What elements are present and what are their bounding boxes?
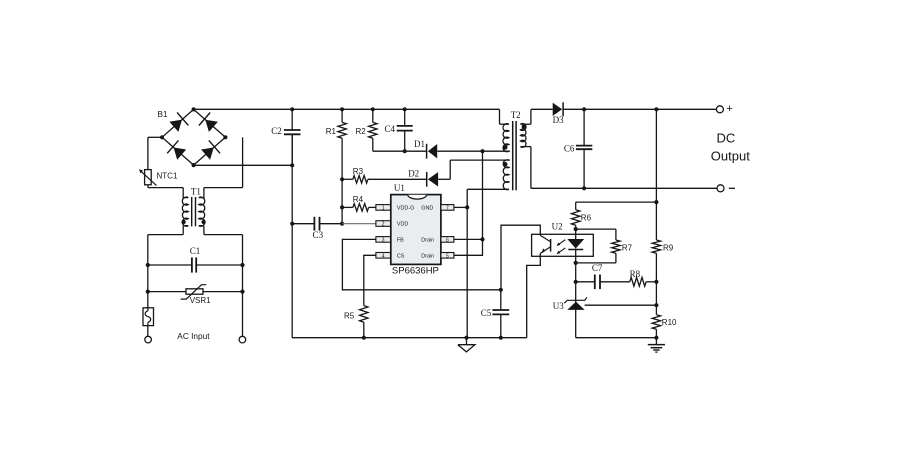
svg-text:Drain: Drain (421, 254, 434, 260)
svg-text:C1: C1 (190, 246, 201, 256)
svg-text:D2: D2 (408, 169, 419, 179)
svg-text:DC: DC (717, 130, 736, 145)
svg-text:AC Input: AC Input (177, 331, 210, 341)
svg-text:U3: U3 (553, 301, 564, 311)
svg-text:T1: T1 (191, 187, 201, 197)
svg-text:D3: D3 (553, 115, 564, 125)
svg-text:U1: U1 (394, 183, 405, 193)
svg-text:+: + (726, 103, 732, 115)
svg-text:5: 5 (446, 253, 449, 259)
svg-text:R2: R2 (356, 127, 367, 136)
svg-text:VSR1: VSR1 (190, 296, 211, 305)
svg-text:R5: R5 (344, 312, 355, 321)
svg-text:C4: C4 (385, 124, 396, 134)
svg-text:C3: C3 (313, 230, 324, 240)
svg-text:T2: T2 (511, 110, 521, 120)
svg-text:R7: R7 (622, 243, 633, 252)
svg-text:1: 1 (382, 206, 385, 212)
svg-text:SP6636HP: SP6636HP (392, 266, 439, 277)
svg-text:C2: C2 (271, 126, 282, 136)
svg-text:R3: R3 (353, 167, 364, 176)
svg-text:R1: R1 (326, 127, 337, 136)
svg-text:C6: C6 (564, 144, 575, 154)
svg-text:B1: B1 (158, 110, 168, 119)
svg-text:D1: D1 (414, 139, 425, 149)
svg-text:CS: CS (397, 254, 405, 260)
svg-text:2: 2 (382, 222, 385, 228)
svg-text:R6: R6 (581, 214, 592, 223)
svg-text:VDD-G: VDD-G (397, 206, 414, 212)
svg-text:6: 6 (446, 238, 449, 244)
svg-text:R4: R4 (353, 195, 364, 204)
svg-text:Output: Output (711, 148, 750, 163)
svg-text:R10: R10 (662, 318, 677, 327)
svg-text:GND: GND (421, 206, 433, 212)
svg-text:7: 7 (446, 206, 449, 212)
svg-text:3: 3 (382, 238, 385, 244)
svg-text:R9: R9 (663, 243, 674, 252)
svg-text:C5: C5 (481, 308, 492, 318)
svg-text:Drain: Drain (421, 238, 434, 244)
svg-text:U2: U2 (552, 222, 563, 232)
svg-text:R8: R8 (630, 269, 641, 279)
svg-text:4: 4 (382, 253, 385, 259)
svg-text:NTC1: NTC1 (157, 172, 178, 181)
svg-text:VDD: VDD (397, 222, 408, 228)
svg-text:FB: FB (397, 238, 404, 244)
svg-text:C7: C7 (592, 263, 603, 273)
